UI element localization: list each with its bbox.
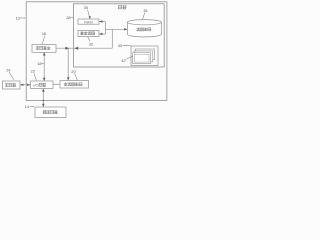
label 内存 xyxy=(118,5,126,9)
wire RAM stub xyxy=(99,20,105,22)
svg-text:32: 32 xyxy=(89,41,94,46)
label 32 xyxy=(88,37,94,46)
wire connector vertical V1 xyxy=(104,22,106,35)
wire bus horizontal 18 xyxy=(56,47,112,49)
memory box 28 xyxy=(74,4,165,67)
outer box: computer system/server 12 xyxy=(26,2,167,101)
wire cache stub xyxy=(99,33,105,35)
IO interfaces box 22 xyxy=(31,81,54,89)
svg-text:RAM: RAM xyxy=(84,20,92,24)
svg-text:34: 34 xyxy=(143,8,148,13)
svg-text:40: 40 xyxy=(118,43,123,48)
wire bus drop to network adapter xyxy=(67,48,70,80)
label 30 xyxy=(84,5,91,19)
program modules stack 42 back xyxy=(135,49,154,60)
svg-text:30: 30 xyxy=(84,5,89,10)
program modules stack 42 front xyxy=(133,53,151,64)
program utility box 40 xyxy=(131,46,158,66)
label 14 xyxy=(25,104,34,109)
wire storage stub xyxy=(105,28,127,30)
label 22 xyxy=(31,69,37,81)
wire IO to network adapter xyxy=(53,83,60,85)
svg-text:I/O: I/O xyxy=(33,83,38,88)
label 20 xyxy=(71,69,77,80)
processing unit box 16 xyxy=(32,45,56,53)
label 40 xyxy=(118,43,131,48)
svg-text:14: 14 xyxy=(25,104,30,109)
wire display to IO double arrow xyxy=(20,84,31,86)
RAM box 30 xyxy=(78,19,99,24)
svg-text:28: 28 xyxy=(66,15,71,20)
network adapter box 20 xyxy=(60,81,89,89)
label 34 xyxy=(143,8,149,19)
svg-text:22: 22 xyxy=(31,69,36,74)
svg-text:20: 20 xyxy=(71,69,76,74)
label 28 xyxy=(66,15,73,20)
wire IO to external devices double arrow xyxy=(42,89,45,108)
svg-text:16: 16 xyxy=(42,31,47,36)
label 18 xyxy=(37,61,44,66)
cache box 32 xyxy=(78,31,99,37)
label 12 xyxy=(16,15,26,20)
program modules stack 42 middle xyxy=(134,51,153,62)
label 24 xyxy=(6,67,14,80)
bus junction arrow right xyxy=(65,47,69,50)
svg-text:42: 42 xyxy=(121,58,126,63)
wire bus riser to memory connector xyxy=(111,29,113,48)
bus junction arrow left xyxy=(74,47,78,50)
display box 24 xyxy=(3,81,21,89)
external devices box 14 xyxy=(35,107,66,118)
storage cylinder 34 xyxy=(127,20,161,37)
wire processing unit to IO vertical 18 xyxy=(43,52,46,81)
label 16 xyxy=(42,31,47,44)
svg-text:24: 24 xyxy=(6,67,11,72)
label 42 xyxy=(121,56,132,63)
